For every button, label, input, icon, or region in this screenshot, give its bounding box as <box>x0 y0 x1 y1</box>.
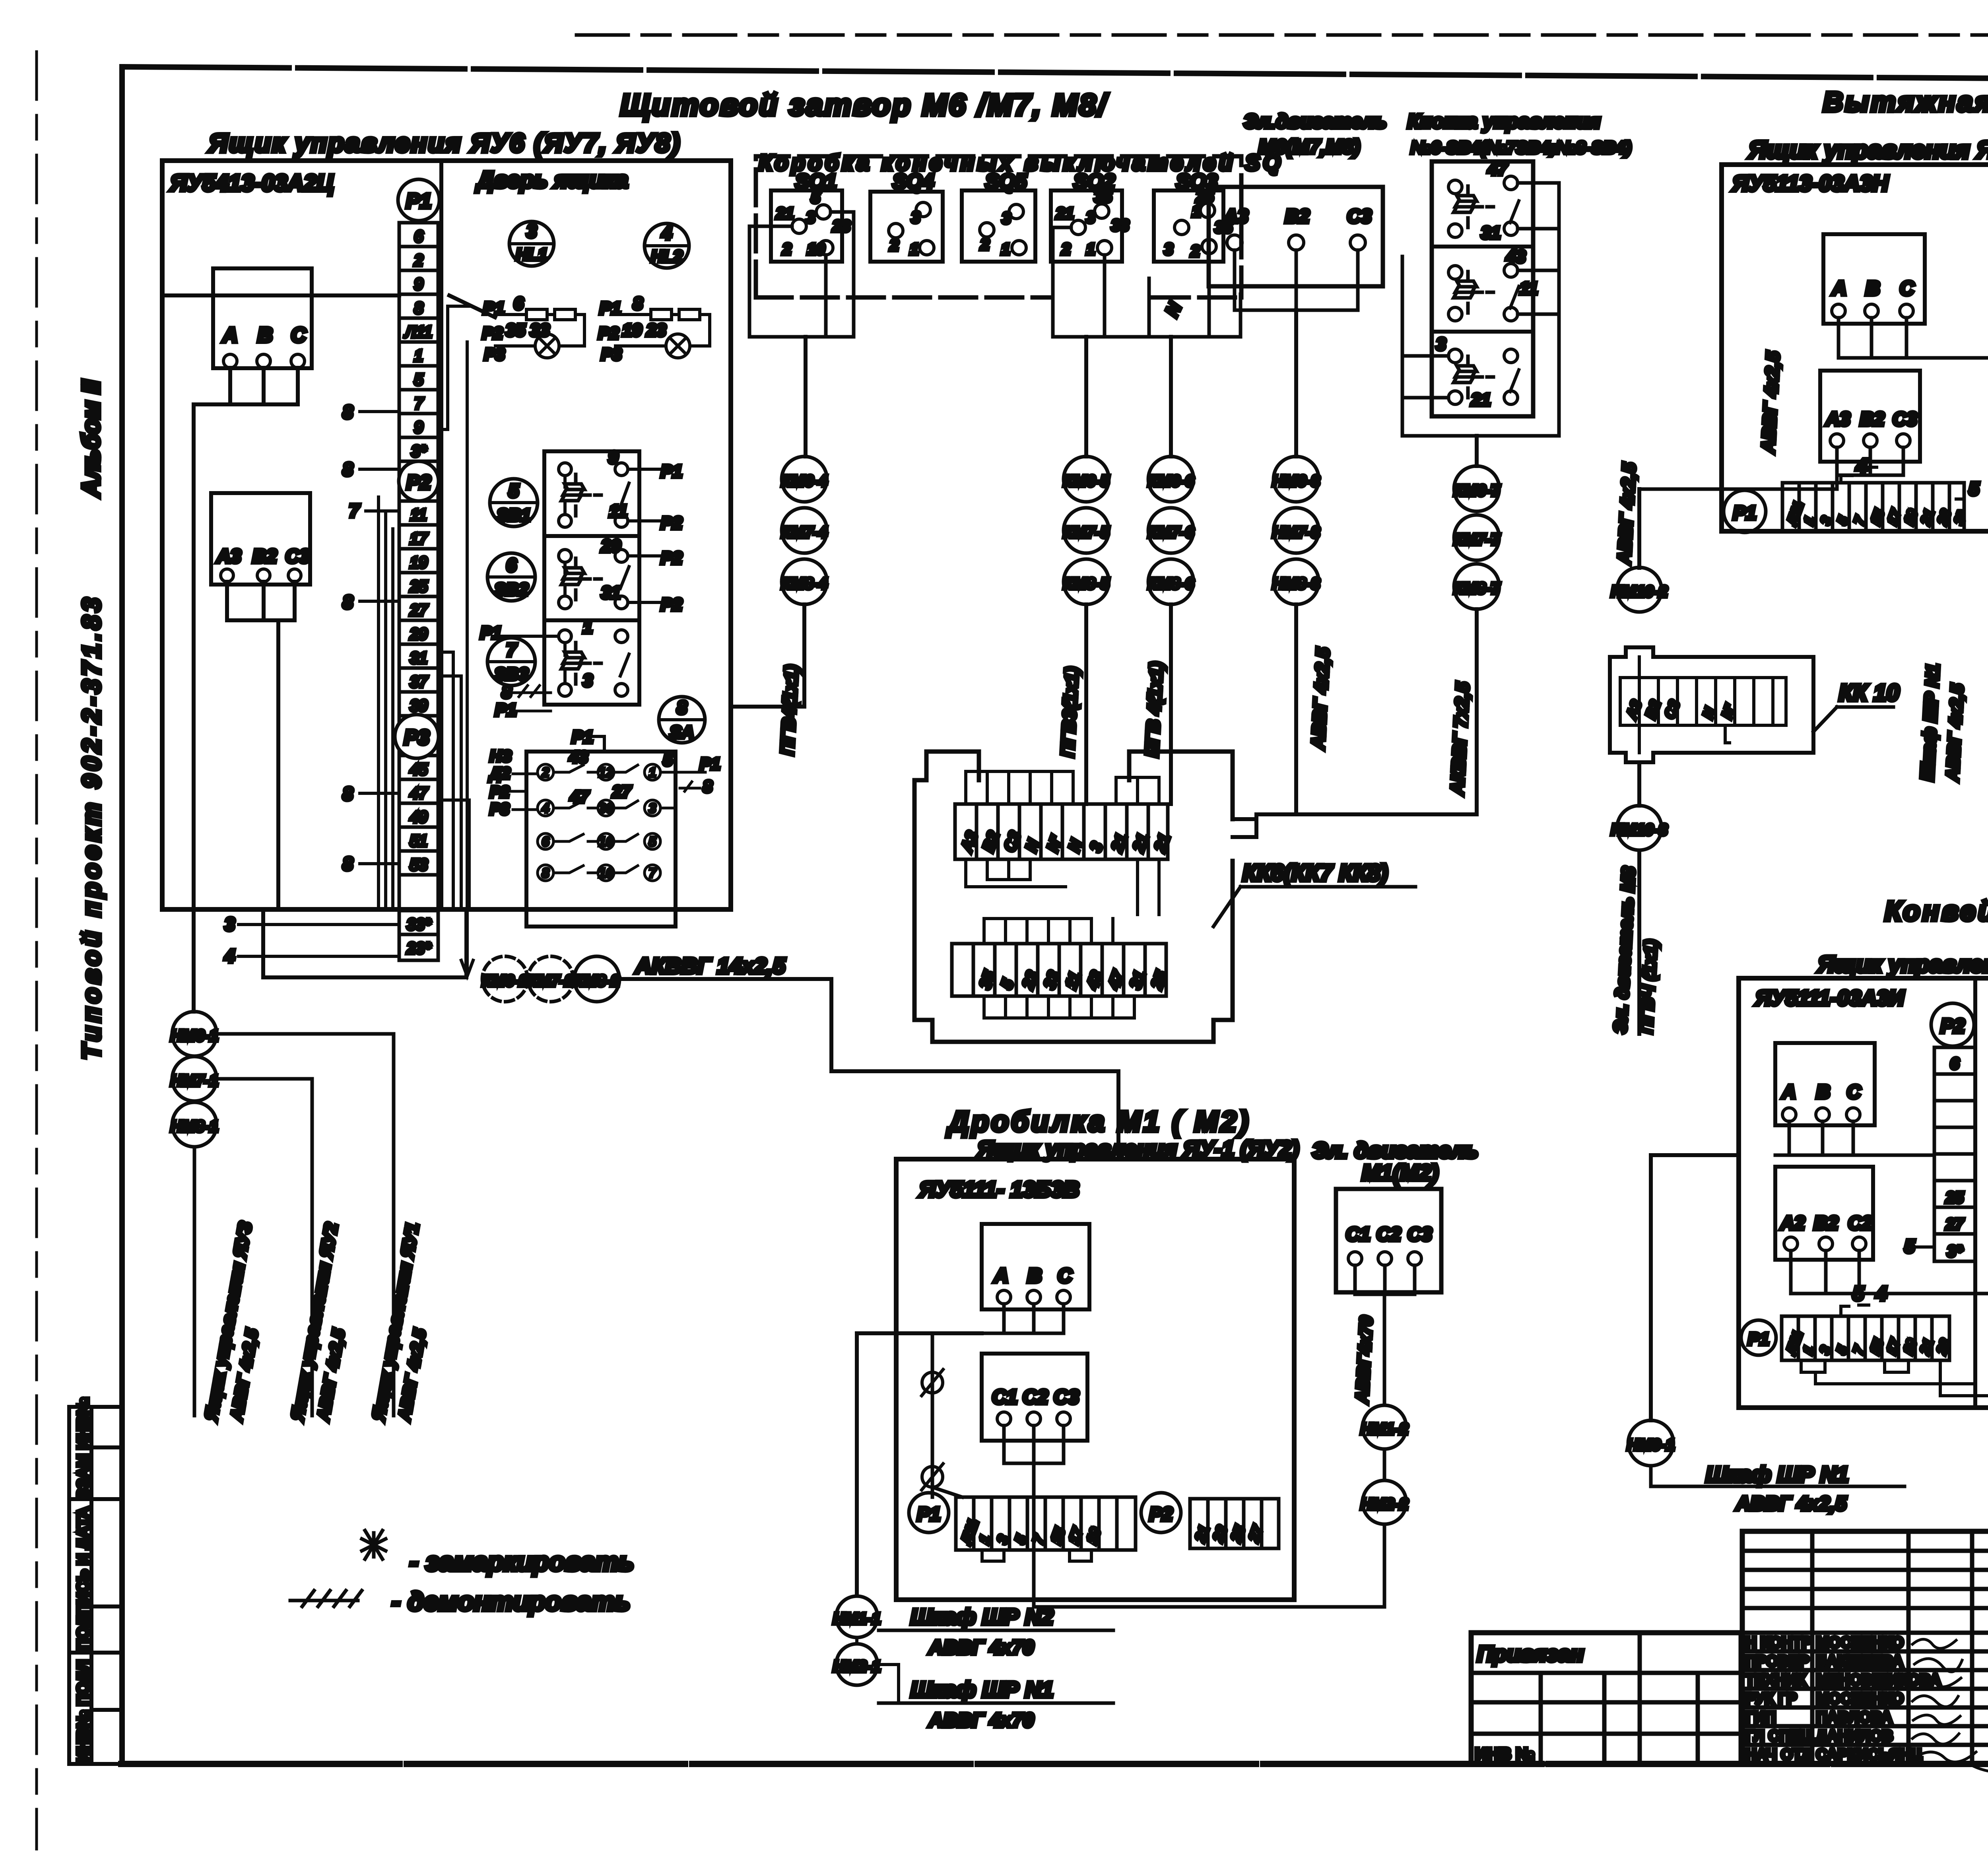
strip numbers ЯУ1 right <box>1192 1523 1266 1544</box>
svg-text:НЗ: НЗ <box>490 748 512 765</box>
wire НМ10-2 feeder <box>1637 489 1641 568</box>
wire SQ2 loop <box>1053 227 1149 337</box>
svg-text:Р3: Р3 <box>490 800 509 818</box>
svg-text:Р2: Р2 <box>661 548 682 568</box>
svg-text:Дробилка М1 ( М2): Дробилка М1 ( М2) <box>946 1106 1251 1138</box>
button box SB3 <box>544 620 639 705</box>
svg-text:19: 19 <box>410 554 428 571</box>
svg-text:8: 8 <box>343 459 353 480</box>
coupling circle НМ2-1 <box>836 1644 878 1685</box>
switch box SQ3 <box>1154 190 1223 262</box>
svg-text:КМ7-6: КМ7-6 <box>1148 524 1194 541</box>
svg-text:21: 21 <box>1056 205 1074 222</box>
svg-text:НМ2-1: НМ2-1 <box>833 1658 881 1675</box>
svg-text:5: 5 <box>811 189 820 206</box>
svg-text:ТЕХНИК: ТЕХНИК <box>1745 1672 1806 1688</box>
svg-text:С3: С3 <box>1347 206 1372 227</box>
svg-text:HL2: HL2 <box>651 247 682 266</box>
terminal box ABC YAU6 <box>213 268 312 368</box>
svg-text:3: 3 <box>649 801 656 816</box>
svg-text:ПОДПИСЬ И ДАТА: ПОДПИСЬ И ДАТА <box>74 1507 92 1650</box>
terminal strip ЯУ1 right <box>1190 1499 1279 1548</box>
svg-text:Р2: Р2 <box>661 595 682 614</box>
svg-text:25: 25 <box>1945 1189 1964 1206</box>
svg-text:ЯУ5111-03А3И: ЯУ5111-03А3И <box>1755 986 1905 1010</box>
svg-text:10: 10 <box>807 241 825 258</box>
svg-text:НМ7-3: НМ7-3 <box>1272 524 1320 541</box>
wire A3B2C3 stems ЯУ10 <box>1639 447 1903 489</box>
coupling circle НМ7-1 <box>172 1057 217 1101</box>
svg-text:В: В <box>1816 1082 1830 1103</box>
svg-text:КМ7-2: КМ7-2 <box>528 972 574 990</box>
svg-text:А2: А2 <box>1780 1213 1805 1234</box>
wire M6 drop <box>1294 310 1298 456</box>
wires КК6 lower stubs <box>984 919 1134 1018</box>
coupler chain НМ6-3 НМ7-3 НМ8-3 <box>1274 456 1319 502</box>
svg-text:АКВВГ 14х2,5: АКВВГ 14х2,5 <box>635 953 786 978</box>
svg-text:Шкаф ШР N1: Шкаф ШР N1 <box>911 1677 1053 1702</box>
svg-text:КМ8-7: КМ8-7 <box>1454 580 1500 597</box>
svg-text:С: С <box>291 324 307 347</box>
wire SB4 drop <box>1475 436 1479 466</box>
svg-text:9: 9 <box>414 419 423 436</box>
svg-text:Р1: Р1 <box>600 299 621 318</box>
svg-text:Р2: Р2 <box>482 324 503 342</box>
svg-text:Р3: Р3 <box>601 345 621 363</box>
box КК6 outer <box>914 752 1233 1042</box>
svg-text:2: 2 <box>1061 241 1070 258</box>
svg-text:6: 6 <box>506 555 516 575</box>
coupling circle КМ7-2 <box>528 956 573 1002</box>
svg-text:В: В <box>1866 277 1880 299</box>
strip numbers ЯУ1 left <box>957 1517 1104 1547</box>
svg-text:КМ8-4: КМ8-4 <box>781 575 827 592</box>
wire C1C2C3 stems ЯУ1 <box>932 1426 1384 1607</box>
svg-text:45: 45 <box>410 761 428 778</box>
svg-text:8: 8 <box>343 592 353 612</box>
wire ABC stems ЯУ1 <box>982 1304 1064 1333</box>
svg-text:НМ10-2: НМ10-2 <box>1611 583 1668 600</box>
wire ABC feed down-left <box>192 404 196 1012</box>
svg-text:НМ8-3: НМ8-3 <box>1272 575 1320 592</box>
coupler chain КМ6-5 КМ7-5 КМ8-5 <box>1064 456 1109 502</box>
svg-text:3: 3 <box>225 914 235 934</box>
svg-text:АВВГ 4х2,5: АВВГ 4х2,5 <box>1735 1492 1847 1515</box>
terminal strip ЯУ9 vertical <box>1934 1047 1975 1261</box>
svg-text:1: 1 <box>414 347 423 365</box>
switch box SQ5 <box>962 190 1035 262</box>
svg-text:6: 6 <box>414 228 423 245</box>
svg-text:А: А <box>1782 1082 1796 1103</box>
svg-text:Р2: Р2 <box>1149 1504 1173 1525</box>
svg-text:SA: SA <box>670 723 694 742</box>
divider door/cabinet <box>439 161 443 909</box>
relay circle P3 <box>395 715 439 758</box>
wires КК6 upper stubs <box>966 771 1159 804</box>
svg-text:1: 1 <box>1086 241 1095 258</box>
svg-text:39: 39 <box>410 697 428 715</box>
svg-text:51: 51 <box>410 832 428 850</box>
svg-text:37: 37 <box>410 673 428 691</box>
svg-text:21: 21 <box>776 205 794 222</box>
svg-text:8: 8 <box>703 777 712 796</box>
svg-text:ИНВ №: ИНВ № <box>1475 1744 1534 1763</box>
svg-text:19 23: 19 23 <box>622 320 666 340</box>
svg-text:21: 21 <box>1471 390 1491 410</box>
outer left dashed sheet line <box>35 52 38 1849</box>
svg-text:7: 7 <box>414 395 424 412</box>
svg-text:ГИП: ГИП <box>1745 1709 1776 1726</box>
strip tick labels <box>224 402 360 966</box>
svg-text:Р3: Р3 <box>404 726 429 749</box>
strip numbers КК6 lower <box>976 968 1171 992</box>
svg-text:3: 3 <box>911 209 920 226</box>
wire SQ3 drop <box>1169 337 1173 456</box>
terminal box A3B2C3 ЯУ10 <box>1820 371 1920 462</box>
svg-text:М1(М2): М1(М2) <box>1362 1160 1439 1185</box>
svg-text:А3: А3 <box>216 546 241 567</box>
svg-text:8: 8 <box>542 866 549 881</box>
button box SB2 <box>544 536 639 620</box>
svg-text:49: 49 <box>410 808 428 826</box>
svg-text:ЯУ5413-03А2Ц: ЯУ5413-03А2Ц <box>169 170 334 196</box>
wire A3B2C3 feed <box>276 620 280 909</box>
svg-text:В2: В2 <box>1860 409 1885 430</box>
tick lines <box>239 412 399 956</box>
svg-text:ЯУ5113-03А3Н: ЯУ5113-03А3Н <box>1732 171 1889 196</box>
svg-text:Р2: Р2 <box>661 513 682 533</box>
svg-text:27: 27 <box>1945 1216 1964 1233</box>
svg-text:Ящик управления ЯУ6 (ЯУ7, ЯУ8: Ящик управления ЯУ6 (ЯУ7, ЯУ8) <box>208 128 681 157</box>
svg-text:4: 4 <box>1875 1282 1887 1305</box>
svg-text:9: 9 <box>414 276 423 293</box>
svg-text:Вытяжная система В-1, М 10: Вытяжная система В-1, М 10 <box>1823 86 1988 117</box>
coupling circle НМ2-2 <box>1363 1480 1406 1524</box>
svg-text:НМ2-2: НМ2-2 <box>1361 1496 1408 1513</box>
svg-text:HL1: HL1 <box>516 245 547 264</box>
wire riser to KM6-2 <box>461 342 473 976</box>
svg-text:Р1: Р1 <box>483 299 505 318</box>
svg-text:- демонтировать: - демонтировать <box>392 1587 630 1616</box>
terminal strip КК10 <box>1620 678 1786 725</box>
svg-text:- замаркировать: - замаркировать <box>410 1547 634 1576</box>
wire internal bus <box>162 293 399 297</box>
svg-text:29: 29 <box>601 536 621 556</box>
terminal strip КК6 lower <box>952 944 1166 996</box>
svg-text:5: 5 <box>1853 1282 1864 1305</box>
switch box SQ2 <box>1051 190 1122 262</box>
svg-text:Конвейер М9: Конвейер М9 <box>1885 895 1988 927</box>
svg-text:2: 2 <box>980 236 989 253</box>
coupling circle НМ1-2 <box>1363 1405 1406 1449</box>
svg-text:9: 9 <box>608 448 618 467</box>
svg-text:8: 8 <box>343 853 353 874</box>
relay circle P2 <box>399 461 439 501</box>
svg-text:КК6(КК7 КК8): КК6(КК7 КК8) <box>1242 860 1388 886</box>
coupling circle КМ6-2 <box>482 956 528 1002</box>
svg-text:С: С <box>1847 1082 1861 1103</box>
box КК10 <box>1610 647 1813 762</box>
svg-text:47: 47 <box>410 785 428 802</box>
svg-text:Р2: Р2 <box>490 783 509 801</box>
wire A2B2C2 stems ЯУ9 <box>1791 1251 1988 1294</box>
wire НМ10-3 down <box>1637 851 1641 1034</box>
svg-text:11: 11 <box>609 501 627 521</box>
svg-text:С: С <box>1900 277 1914 299</box>
svg-text:МОСЕЕНКО: МОСЕЕНКО <box>1816 1690 1904 1707</box>
terminal box A2B2C2 ЯУ9 <box>1775 1167 1873 1260</box>
svg-text:4: 4 <box>224 946 235 966</box>
strip tabs ЯУ1 <box>982 1550 1091 1561</box>
svg-text:1: 1 <box>583 618 592 637</box>
svg-text:С2: С2 <box>1376 1224 1401 1245</box>
svg-text:Эл. двигатель: Эл. двигатель <box>1312 1138 1478 1163</box>
svg-text:35 33: 35 33 <box>506 320 549 340</box>
motor box М6 <box>1209 187 1383 286</box>
svg-text:НМ6-1: НМ6-1 <box>171 1027 218 1045</box>
coupler chain КМ6-7 КМ7-7 КМ8-7 <box>1454 466 1499 511</box>
svg-text:2: 2 <box>1190 243 1200 260</box>
wire bundle left of strip <box>379 497 393 909</box>
svg-text:Р1: Р1 <box>661 462 682 481</box>
svg-text:КМ6-5: КМ6-5 <box>1063 472 1109 490</box>
svg-text:САРКИСЬЯНЦ: САРКИСЬЯНЦ <box>1816 1746 1922 1763</box>
svg-text:М6(М7,М8): М6(М7,М8) <box>1258 136 1360 158</box>
terminal strip ЯУ1 left <box>956 1497 1136 1550</box>
svg-text:5: 5 <box>663 750 673 769</box>
svg-text:1: 1 <box>910 241 918 258</box>
box lower extension <box>263 909 466 977</box>
lamp circle HL1 <box>509 221 554 266</box>
coupling circle НМ1-1 <box>836 1596 878 1637</box>
svg-text:А3: А3 <box>1825 409 1850 430</box>
svg-text:ВЗАМ ИНВ№: ВЗАМ ИНВ№ <box>74 1397 92 1500</box>
wires SB4 right side <box>1402 183 1559 436</box>
main frame bottom border <box>121 1761 1988 1767</box>
button circle 6/SB2 <box>487 553 535 601</box>
legend strike mark <box>290 1591 362 1606</box>
wire SQ2 drop <box>1084 337 1088 456</box>
terminal strip КК6 upper <box>955 804 1168 859</box>
svg-text:23: 23 <box>832 218 850 235</box>
svg-text:Шкаф ШР N2: Шкаф ШР N2 <box>911 1604 1053 1629</box>
svg-text:КМ7-5: КМ7-5 <box>1063 524 1109 541</box>
svg-text:5: 5 <box>414 371 423 388</box>
terminal box A3B2C3 YAU6 <box>211 493 310 585</box>
svg-text:6: 6 <box>1950 1055 1959 1072</box>
button box №6-SB4 <box>1432 161 1533 416</box>
svg-text:5: 5 <box>1969 478 1980 499</box>
svg-text:В: В <box>258 324 273 347</box>
svg-text:ЯУ5111- 13Б3В: ЯУ5111- 13Б3В <box>918 1177 1079 1202</box>
svg-text:ГЛ СПЕЦ: ГЛ СПЕЦ <box>1745 1728 1811 1744</box>
box ЯУ1 cabinet <box>896 1159 1294 1600</box>
wire КМ8-7 down and left <box>1233 609 1477 837</box>
lamp circle HL2 <box>645 223 689 268</box>
terminal strip ЯУ9 horizontal <box>1782 1316 1949 1360</box>
svg-text:Привязан: Привязан <box>1477 1641 1584 1666</box>
strip numbers ЯУ10 horizontal <box>1784 500 1970 528</box>
svg-text:10: 10 <box>598 834 613 849</box>
svg-text:8: 8 <box>343 402 353 422</box>
svg-text:27: 27 <box>612 782 631 801</box>
svg-text:№6-SB4(№7SB4;№8-SB4): №6-SB4(№7SB4;№8-SB4) <box>1411 138 1631 157</box>
svg-text:SB1: SB1 <box>497 505 531 525</box>
coupling circle НМ9-1 <box>1628 1420 1673 1466</box>
SB4 section 2 <box>1448 266 1462 279</box>
svg-text:НМ6-3: НМ6-3 <box>1272 472 1320 490</box>
strip numbers КК10 <box>1623 698 1739 721</box>
svg-text:А: А <box>1831 277 1846 299</box>
svg-text:В: В <box>1027 1265 1042 1287</box>
svg-text:31: 31 <box>410 649 428 667</box>
svg-text:КМ6-2: КМ6-2 <box>482 972 528 990</box>
svg-text:8: 8 <box>502 682 512 702</box>
wire SQ1 loop <box>749 212 854 337</box>
svg-text:В2: В2 <box>252 546 277 567</box>
svg-text:С2: С2 <box>1848 1213 1873 1234</box>
wire strip ЯУ9 bottom stubs <box>1801 1360 1988 1396</box>
wire M1 stems <box>1355 1265 1415 1405</box>
SB4 section 3 <box>1448 349 1462 363</box>
box YAU6 cabinet <box>162 161 731 909</box>
svg-text:3: 3 <box>526 221 537 241</box>
svg-text:47: 47 <box>570 787 589 806</box>
svg-text:БАКШЕЕВА: БАКШЕЕВА <box>1816 1653 1903 1670</box>
svg-text:2: 2 <box>542 765 549 780</box>
svg-text:Р1: Р1 <box>406 190 431 213</box>
svg-text:С2: С2 <box>1023 1386 1048 1408</box>
disconnect symbol 2 <box>922 1467 943 1487</box>
wire SB1 to P1 P2 <box>628 469 676 521</box>
terminal circles A3B2C3 YAU6 <box>221 569 233 582</box>
svg-text:ПРОВЕР: ПРОВЕР <box>1745 1653 1809 1670</box>
svg-text:Р3: Р3 <box>484 345 505 363</box>
svg-text:3: 3 <box>1002 210 1011 227</box>
lamp chain 2 <box>666 334 690 358</box>
svg-text:ИНВ№ ПОДЛ: ИНВ№ ПОДЛ <box>74 1660 92 1762</box>
svg-text:Р1: Р1 <box>1733 503 1757 524</box>
svg-text:Дверь ящика: Дверь ящика <box>475 167 628 193</box>
svg-text:SQ4: SQ4 <box>893 170 934 193</box>
svg-text:НМ1-1: НМ1-1 <box>833 1610 881 1628</box>
svg-text:С3: С3 <box>1893 409 1917 430</box>
wire ABC stems ЯУ10 <box>1839 318 1988 358</box>
wire left feeder ЯУ1 <box>857 1333 982 1595</box>
svg-text:РУК ГР: РУК ГР <box>1745 1690 1797 1707</box>
legend star <box>362 1531 386 1559</box>
wire SB2 to P2 <box>628 556 676 602</box>
SB4 section 1 <box>1448 180 1462 194</box>
main frame left border <box>119 67 125 1764</box>
wire SQ1 drop <box>804 337 808 456</box>
svg-text:С1: С1 <box>1346 1224 1370 1245</box>
motor box М1 <box>1336 1189 1441 1292</box>
svg-text:КМ6-7: КМ6-7 <box>1454 482 1500 499</box>
svg-text:Ящик управления ЯУ 10: Ящик управления ЯУ 10 <box>1748 136 1988 164</box>
staff rows <box>1745 1634 1941 1763</box>
svg-text:1: 1 <box>1192 203 1201 220</box>
strip numbers ЯУ9 <box>1945 1055 1964 1260</box>
coupling circle НМ10-2 <box>1617 567 1662 612</box>
svg-text:КМ6-6: КМ6-6 <box>1148 472 1194 490</box>
svg-text:1: 1 <box>649 765 656 780</box>
svg-text:Кнопка управления: Кнопка управления <box>1408 110 1600 132</box>
main frame top border <box>122 67 1988 82</box>
coupler chain КМ6-4 КМ7-4 КМ8-4 <box>782 456 827 502</box>
svg-text:53: 53 <box>410 856 428 874</box>
wire НМ8-3 down <box>1294 604 1298 814</box>
svg-text:1: 1 <box>1001 241 1010 258</box>
svg-text:43: 43 <box>569 748 588 766</box>
svg-text:47: 47 <box>1487 159 1508 179</box>
switch box SQ1 <box>771 190 842 262</box>
box ЯУ10 cabinet <box>1722 165 1988 531</box>
svg-text:Д2: Д2 <box>489 765 510 782</box>
svg-text:8: 8 <box>633 294 643 313</box>
strip numbers КК6 upper <box>958 829 1174 855</box>
svg-text:4: 4 <box>661 223 672 243</box>
svg-text:Щитовой затвор М6 /М7, М8/: Щитовой затвор М6 /М7, М8/ <box>620 88 1109 122</box>
button circle 5/SB1 <box>490 479 538 526</box>
svg-text:МОСЕЕНКО: МОСЕЕНКО <box>1816 1634 1904 1651</box>
wire M6 motor stems <box>1235 250 1358 310</box>
svg-text:КМ7-4: КМ7-4 <box>781 524 827 541</box>
svg-text:Эл.двигатель: Эл.двигатель <box>1244 110 1386 132</box>
svg-text:КМ8-5: КМ8-5 <box>1063 575 1109 592</box>
wire left feeder ЯУ9 <box>1651 1155 1739 1420</box>
svg-text:3*: 3* <box>411 443 427 460</box>
svg-text:Р2: Р2 <box>406 471 431 493</box>
svg-text:Р1: Р1 <box>700 754 720 773</box>
svg-text:ДАНИЛОВ: ДАНИЛОВ <box>1816 1728 1893 1744</box>
svg-text:3: 3 <box>1086 209 1095 226</box>
relay circle Р2 ЯУ9 <box>1931 1003 1974 1046</box>
svg-text:3*: 3* <box>1947 1243 1963 1260</box>
svg-text:НМ7-1: НМ7-1 <box>171 1072 218 1090</box>
button box SB1 <box>544 451 639 536</box>
svg-text:Р2: Р2 <box>598 324 619 342</box>
svg-text:С3: С3 <box>1408 1224 1432 1245</box>
svg-text:25: 25 <box>410 578 428 595</box>
terminal box C1C2C3 ЯУ1 <box>982 1354 1087 1441</box>
svg-text:SB2: SB2 <box>494 580 528 599</box>
wire НМ9-1 down <box>1651 1466 1686 1486</box>
wire inner drop ЯУ1 <box>931 1333 934 1497</box>
svg-text:С3: С3 <box>1054 1386 1079 1408</box>
svg-text:12: 12 <box>598 765 613 780</box>
svg-text:ПАВЛОВА: ПАВЛОВА <box>1816 1709 1892 1726</box>
svg-text:5: 5 <box>649 834 657 849</box>
svg-text:Альбом II: Альбом II <box>78 379 105 498</box>
relay circle Р2 ЯУ1 <box>1141 1493 1181 1533</box>
svg-text:КМ6-4: КМ6-4 <box>781 472 827 490</box>
terminal strip ЯУ10 horizontal <box>1782 483 1964 531</box>
svg-text:27: 27 <box>410 602 428 619</box>
svg-text:17: 17 <box>410 530 428 548</box>
svg-text:КК 10: КК 10 <box>1839 680 1899 706</box>
wire КК10 to НМ10-3 <box>1637 762 1641 806</box>
coupler chain КМ6-6 КМ7-6 КМ8-6 <box>1148 456 1194 502</box>
wire strip right risers <box>438 306 472 909</box>
svg-text:Р1: Р1 <box>480 623 502 643</box>
svg-text:4: 4 <box>542 801 549 816</box>
wire SB3 P1 left <box>493 635 559 638</box>
svg-text:НМ9-1: НМ9-1 <box>1627 1436 1675 1454</box>
svg-text:Н КОНТР: Н КОНТР <box>1745 1634 1812 1651</box>
svg-text:6: 6 <box>514 294 524 313</box>
svg-text:Р1: Р1 <box>917 1504 941 1525</box>
